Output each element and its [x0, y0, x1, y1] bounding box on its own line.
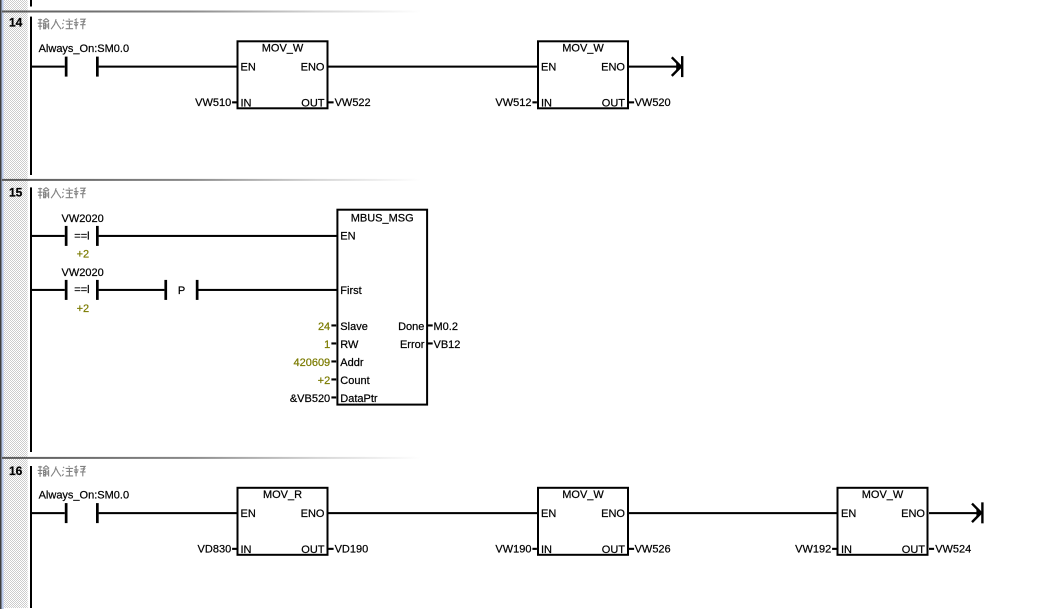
svg-text:EN: EN — [340, 230, 355, 242]
svg-text:VB12: VB12 — [434, 339, 461, 351]
svg-text:MOV_W: MOV_W — [862, 489, 904, 501]
svg-text:MOV_W: MOV_W — [262, 43, 304, 55]
svg-text:OUT: OUT — [602, 544, 626, 556]
svg-text:+2: +2 — [77, 249, 90, 261]
svg-text:MOV_W: MOV_W — [562, 43, 604, 55]
svg-text:EN: EN — [541, 62, 556, 74]
svg-text:VW520: VW520 — [635, 97, 671, 109]
svg-text:EN: EN — [541, 508, 556, 520]
svg-text:VD190: VD190 — [335, 544, 369, 556]
svg-text:ENO: ENO — [601, 508, 625, 520]
svg-text:IN: IN — [241, 98, 252, 110]
svg-text:ENO: ENO — [301, 62, 325, 74]
svg-text:EN: EN — [841, 508, 856, 520]
svg-text:Error: Error — [400, 339, 425, 351]
svg-text:Done: Done — [398, 321, 424, 333]
svg-text:VW524: VW524 — [935, 544, 971, 556]
svg-text:M0.2: M0.2 — [434, 321, 458, 333]
svg-text:VW512: VW512 — [495, 97, 531, 109]
svg-text:VW192: VW192 — [795, 544, 831, 556]
svg-text:1: 1 — [324, 339, 330, 351]
svg-text:OUT: OUT — [902, 544, 926, 556]
svg-text:ENO: ENO — [601, 62, 625, 74]
svg-text:First: First — [340, 285, 361, 297]
svg-text:OUT: OUT — [301, 544, 325, 556]
svg-text:OUT: OUT — [602, 98, 626, 110]
svg-text:Always_On:SM0.0: Always_On:SM0.0 — [39, 43, 129, 55]
svg-text:IN: IN — [541, 544, 552, 556]
svg-text:==l: ==l — [74, 284, 89, 296]
svg-text:IN: IN — [241, 544, 252, 556]
svg-text:VW522: VW522 — [335, 97, 371, 109]
svg-text:Slave: Slave — [340, 321, 368, 333]
svg-text:EN: EN — [241, 62, 256, 74]
svg-text:VW2020: VW2020 — [62, 267, 104, 279]
svg-text:VW190: VW190 — [495, 544, 531, 556]
svg-text:ENO: ENO — [301, 508, 325, 520]
svg-text:VD830: VD830 — [198, 544, 232, 556]
svg-text:IN: IN — [541, 98, 552, 110]
svg-text:VW526: VW526 — [635, 544, 671, 556]
svg-text:15: 15 — [9, 186, 23, 200]
svg-text:EN: EN — [241, 508, 256, 520]
svg-text:VW510: VW510 — [195, 97, 231, 109]
svg-text:P: P — [178, 285, 185, 297]
svg-text:Addr: Addr — [340, 357, 364, 369]
svg-text:MBUS_MSG: MBUS_MSG — [351, 212, 414, 224]
svg-text:IN: IN — [841, 544, 852, 556]
svg-text:RW: RW — [340, 339, 359, 351]
svg-text:MOV_W: MOV_W — [562, 489, 604, 501]
svg-text:+2: +2 — [77, 303, 90, 315]
svg-text:Always_On:SM0.0: Always_On:SM0.0 — [39, 490, 129, 502]
svg-text:+2: +2 — [318, 375, 331, 387]
svg-text:OUT: OUT — [301, 98, 325, 110]
svg-text:==l: ==l — [74, 231, 89, 243]
svg-text:VW2020: VW2020 — [62, 213, 104, 225]
svg-text:&VB520: &VB520 — [290, 393, 330, 405]
svg-text:ENO: ENO — [901, 508, 925, 520]
svg-text:16: 16 — [9, 464, 23, 478]
svg-text:420609: 420609 — [293, 357, 330, 369]
svg-text:MOV_R: MOV_R — [263, 489, 302, 501]
svg-text:DataPtr: DataPtr — [340, 393, 378, 405]
svg-text:Count: Count — [340, 375, 369, 387]
svg-text:14: 14 — [9, 16, 23, 30]
svg-text:24: 24 — [318, 321, 330, 333]
